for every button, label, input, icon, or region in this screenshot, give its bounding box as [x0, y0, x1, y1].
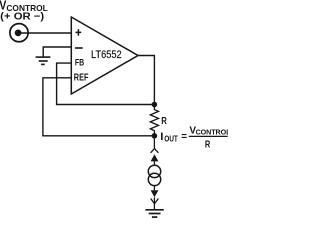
- svg-text:I: I: [160, 131, 163, 143]
- wire VCONTROL to +IN: [20, 32, 71, 34]
- node junction IOUT/REF: [152, 133, 158, 139]
- svg-text:R: R: [161, 116, 167, 127]
- node junction output/FB: [152, 102, 158, 108]
- svg-text:(+ OR −): (+ OR −): [0, 12, 44, 23]
- wire -IN to ground: [43, 47, 71, 57]
- wire REF loop to IOUT node: [43, 78, 152, 136]
- ground at -IN: [36, 57, 51, 64]
- load LS1 (lamp symbol): [148, 165, 160, 185]
- wire load to ground with current arrow down: [151, 186, 159, 210]
- wire IOUT node to load with current arrow up: [151, 136, 159, 166]
- label IOUT equation: [160, 125, 231, 150]
- wire op-amp output to resistor: [138, 56, 154, 106]
- op-amp U1 LT6552 body: [71, 17, 138, 94]
- input terminal J1: [10, 24, 28, 42]
- resistor R: [150, 105, 158, 137]
- svg-text:=: =: [181, 132, 187, 143]
- wire FB feedback loop to output node: [57, 63, 152, 104]
- svg-text:REF: REF: [74, 73, 89, 84]
- svg-text:R: R: [205, 138, 211, 150]
- pin label minus: [75, 47, 83, 49]
- ground at load: [145, 210, 163, 217]
- svg-text:OUT: OUT: [164, 134, 178, 143]
- pin label +: [76, 29, 82, 36]
- svg-text:FB: FB: [75, 58, 85, 68]
- svg-text:LT6552: LT6552: [91, 49, 122, 61]
- svg-text:CONTROL: CONTROL: [196, 128, 228, 137]
- node VCONTROL input label: [0, 0, 48, 23]
